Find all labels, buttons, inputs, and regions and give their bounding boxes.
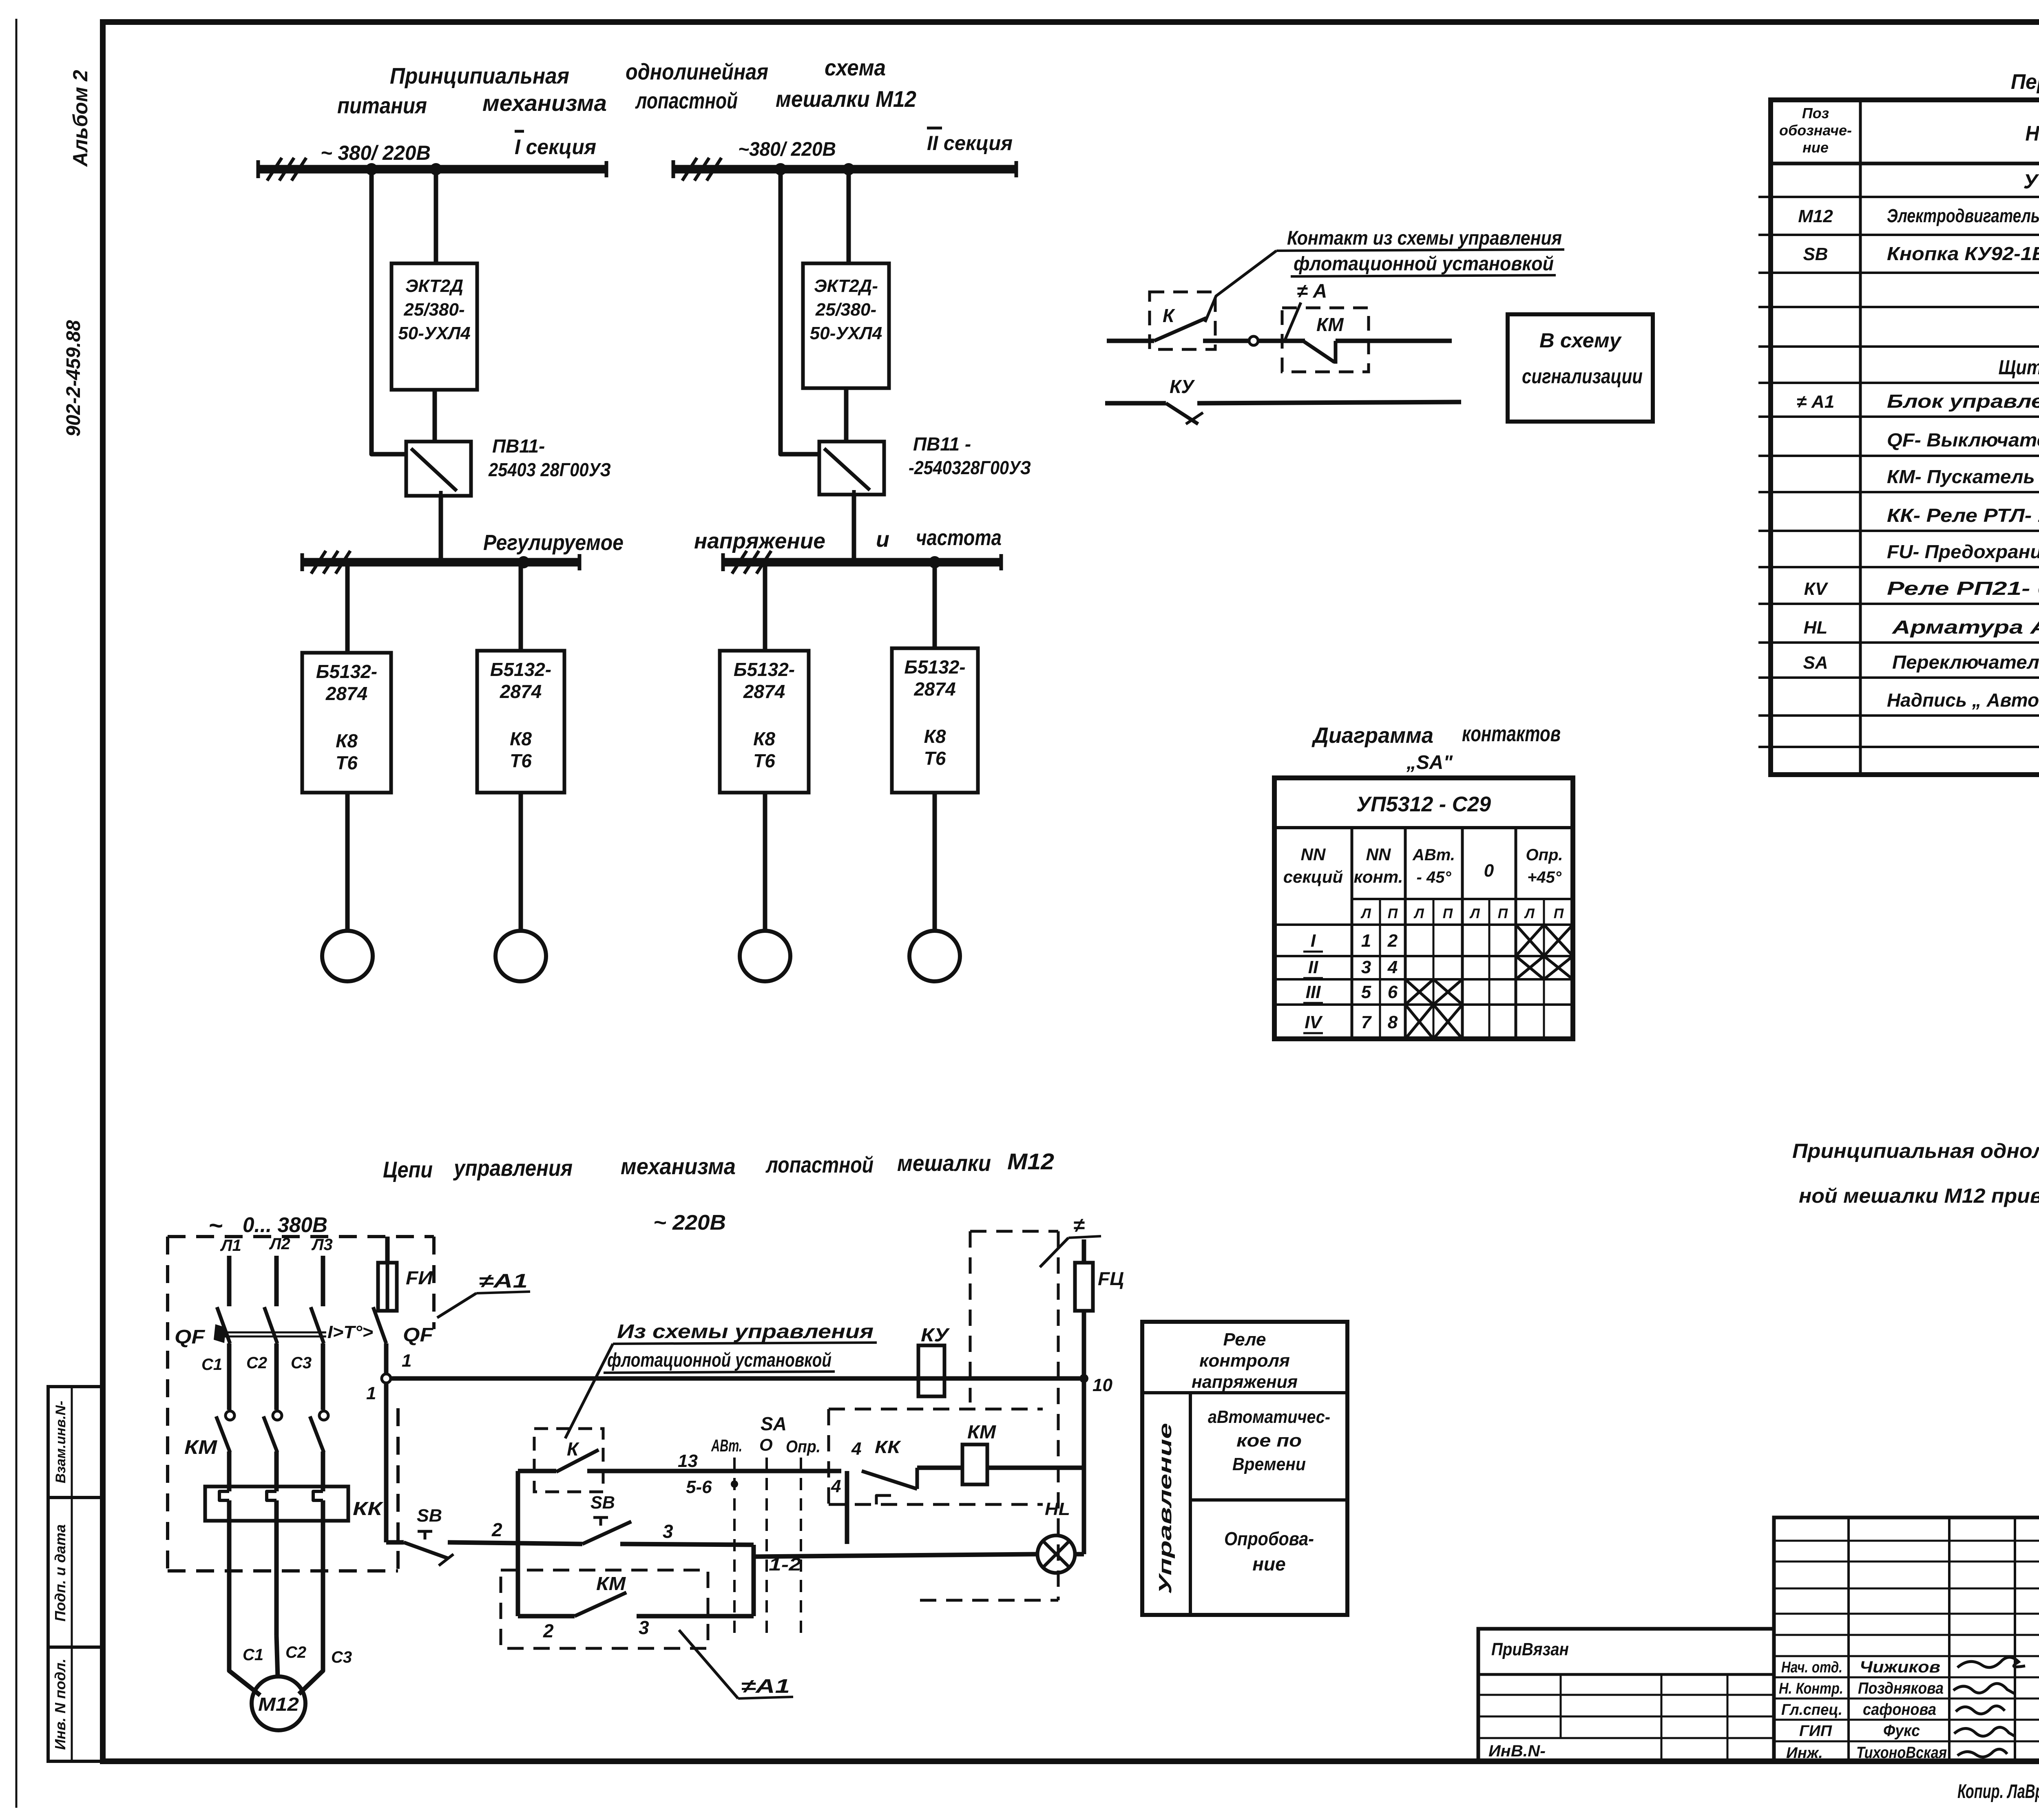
motor circle #1 <box>322 931 373 981</box>
svg-text:≠: ≠ <box>1073 1214 1085 1237</box>
svg-text:Л: Л <box>1413 906 1424 921</box>
row M12 electric motor <box>1798 205 2039 226</box>
wire QF to node 1 <box>384 1343 389 1374</box>
phase wire 1 lower <box>227 1500 232 1636</box>
label NEQ A1 with leader (bottom) <box>679 1630 793 1699</box>
phase wire 2 lower <box>274 1500 279 1636</box>
svg-text:лопастной: лопастной <box>635 88 738 113</box>
title Диаграмма контактов SA <box>1311 722 1561 773</box>
svg-text:Инж.: Инж. <box>1786 1745 1823 1762</box>
label NEQ A1 with leader (top) <box>437 1270 530 1318</box>
wire: PV11 (I) to regulated bus 1 <box>439 496 443 559</box>
phase wire 3 upper <box>321 1256 325 1306</box>
svg-text:Л2: Л2 <box>269 1235 290 1253</box>
svg-text:С2: С2 <box>246 1354 267 1372</box>
SA table header texts <box>1283 793 1564 921</box>
svg-text:2: 2 <box>1387 931 1398 951</box>
svg-text:II секция: II секция <box>927 132 1013 155</box>
svg-text:Т6: Т6 <box>924 748 946 769</box>
phase wire 3 mid <box>321 1343 325 1410</box>
label ~380/220V (section II) <box>738 139 836 160</box>
lamp HL <box>1037 1499 1075 1573</box>
dashed enclosure around power section (A1 left) <box>168 1237 434 1571</box>
label I секция <box>515 131 596 159</box>
signature table names <box>1856 1658 1947 1762</box>
labels 2 and 3 (aux branch) <box>543 1617 649 1641</box>
row HL armature <box>1804 616 2039 638</box>
SA table data rows <box>1303 931 1398 1033</box>
svg-text:FU- Предохранитель ППТ-10УЗ: FU- Предохранитель ППТ-10УЗ Iпл.Вст-6А <box>1887 541 2039 562</box>
svg-text:2874: 2874 <box>743 681 785 702</box>
control unit B5132-2874 K8 T6 #4 <box>892 648 978 793</box>
svg-text:Цепи: Цепи <box>383 1157 433 1182</box>
svg-text:Позднякова: Позднякова <box>1858 1679 1944 1697</box>
svg-text:КМ: КМ <box>184 1437 217 1458</box>
SA contact diagram table grid <box>1274 778 1573 1039</box>
svg-text:Опр.: Опр. <box>786 1437 820 1456</box>
wire: EKT2D 2 to switch PV11 (II) <box>844 388 849 442</box>
svg-text:SА: SА <box>1803 653 1828 673</box>
svg-text:КМ: КМ <box>967 1421 997 1442</box>
label Регулируемое напряжение и частота <box>483 526 1002 555</box>
svg-text:25403 28Г00УЗ: 25403 28Г00УЗ <box>488 459 611 480</box>
label ~380/220V (section I) <box>321 141 431 164</box>
contactor KM pole 2 <box>263 1411 282 1452</box>
sheet outer trim line left <box>15 19 18 1808</box>
svg-text:К8: К8 <box>336 730 358 751</box>
svg-text:механизма: механизма <box>482 90 607 116</box>
wire: control unit #1 to motor #1 <box>345 793 350 931</box>
motor circle #2 <box>495 931 546 981</box>
label II секция <box>927 128 1013 155</box>
label KM (coil) <box>967 1421 997 1442</box>
signature table grid <box>1774 1517 2039 1761</box>
svg-text:0: 0 <box>1484 861 1494 881</box>
phase labels C1 C2 C3 upper <box>201 1354 312 1374</box>
svg-text:КК: КК <box>875 1437 901 1457</box>
svg-text:АВт.: АВт. <box>711 1436 742 1455</box>
svg-text:П: П <box>1554 906 1564 921</box>
svg-text:ГИП: ГИП <box>1799 1723 1832 1740</box>
svg-text:3: 3 <box>663 1521 673 1542</box>
svg-text:механизма: механизма <box>621 1153 736 1179</box>
svg-text:Т6: Т6 <box>336 752 358 773</box>
breaker QF pole 3 <box>311 1307 324 1343</box>
footer: copier name <box>1957 1781 2039 1802</box>
svg-text:4: 4 <box>851 1439 861 1459</box>
svg-text:НL: НL <box>1804 618 1828 638</box>
svg-text:Б5132-: Б5132- <box>316 661 377 682</box>
svg-text:8: 8 <box>1388 1012 1398 1032</box>
dashed box around KK-KM (operator panel) <box>829 1409 1043 1504</box>
row QF breaker <box>1887 429 2039 451</box>
svg-text:флотационной установкой: флотационной установкой <box>607 1350 832 1371</box>
motor circle #3 <box>740 931 790 981</box>
left margin document number 902-2-459.88 <box>63 320 84 437</box>
control unit B5132-2874 K8 T6 #2 <box>477 651 564 793</box>
svg-text:Т6: Т6 <box>510 750 532 771</box>
svg-text:Надпись „ Автом -Опроб ": Надпись „ Автом -Опроб " <box>1887 689 2039 711</box>
svg-text:мешалки: мешалки <box>897 1150 991 1176</box>
label NEQ A <box>1297 281 1327 302</box>
svg-text:П: П <box>1498 906 1508 921</box>
label node 2 <box>491 1519 502 1540</box>
svg-text:I: I <box>1311 931 1316 951</box>
svg-text:1: 1 <box>1361 931 1371 951</box>
svg-text:3: 3 <box>1361 957 1371 977</box>
start button SB2 <box>518 1493 754 1545</box>
svg-text:4: 4 <box>831 1476 841 1496</box>
svg-text:Л: Л <box>1360 906 1371 921</box>
wire after KM <box>1336 339 1452 343</box>
wire: EKT2D 1 to switch PV11 (I) <box>433 390 437 442</box>
contact KM (dashed box, NC) <box>1282 308 1369 372</box>
svg-text:ние: ние <box>1802 139 1829 156</box>
control unit B5132-2874 K8 T6 #3 <box>720 651 809 793</box>
label node 3 <box>663 1521 673 1542</box>
svg-text:-2540328Г00УЗ: -2540328Г00УЗ <box>909 457 1031 478</box>
svg-text:I секция: I секция <box>515 135 596 159</box>
wire: bypass bus I to switch PV11 (I) <box>372 169 406 454</box>
svg-text:Чижиков: Чижиков <box>1860 1658 1940 1676</box>
vertical wire node4 down to return <box>845 1471 849 1544</box>
svg-text:мешалки М12: мешалки М12 <box>776 86 916 112</box>
phase wire 1 upper <box>227 1256 232 1306</box>
left margin album label <box>69 70 92 167</box>
svg-text:Блок управления Б5132- 28: Блок управления Б5132- 2874 <box>1887 391 2039 412</box>
svg-text:Альбом 2: Альбом 2 <box>69 70 92 167</box>
svg-text:напряжение: напряжение <box>694 529 825 553</box>
svg-text:2874: 2874 <box>913 678 955 700</box>
bus bar section II (~380/220V) <box>673 158 1016 181</box>
leader line NEQ A to KM box <box>1285 303 1301 341</box>
svg-text:Принципиальная: Принципиальная <box>390 63 569 88</box>
svg-text:КК- Реле РТЛ- 101004С: КК- Реле РТЛ- 101004С <box>1887 505 2039 526</box>
main control wire node1 to node10 <box>391 1376 1080 1381</box>
annotation box Реле контроля напряжения / Управление <box>1142 1322 1347 1615</box>
control fuse FU (A1) <box>378 1237 397 1311</box>
svg-text:КК: КК <box>353 1498 383 1519</box>
svg-text:Опробова-: Опробова- <box>1224 1528 1314 1549</box>
junction dot regulated bus II <box>929 556 941 568</box>
regulated bus (section II) <box>723 551 1001 574</box>
svg-text:2: 2 <box>491 1519 502 1540</box>
svg-text:Реле: Реле <box>1223 1330 1266 1350</box>
dashed box around KM aux (A1) <box>501 1570 708 1648</box>
svg-text:П: П <box>1443 906 1453 921</box>
phase labels L1 L2 L3 <box>220 1235 333 1255</box>
motor circle #4 <box>909 931 960 981</box>
wire node to contact KM <box>1258 339 1305 343</box>
KK heater element 1 <box>219 1491 229 1500</box>
svg-text:2: 2 <box>543 1620 554 1641</box>
svg-text:УП5312 - С29: УП5312 - С29 <box>1356 793 1491 816</box>
svg-text:Инв. N подл.: Инв. N подл. <box>52 1659 69 1750</box>
svg-text:М12: М12 <box>1007 1149 1054 1174</box>
svg-text:С3: С3 <box>291 1354 312 1372</box>
wire: PV11 (II) to regulated bus 2 <box>852 495 856 559</box>
phase wire 2 upper <box>274 1256 279 1306</box>
box В схему сигнализации <box>1508 314 1653 422</box>
row SB button <box>1803 243 2039 265</box>
dashed box around FU2/HL column <box>920 1231 1058 1600</box>
stop button SB <box>386 1506 518 1566</box>
svg-text:5: 5 <box>1361 982 1371 1002</box>
svg-text:ПВ11 -: ПВ11 - <box>913 433 971 455</box>
svg-text:КМ- Пускатель ПМЛ110004В +ПК: КМ- Пускатель ПМЛ110004В +ПКЛ2204 Iнэ-6А <box>1887 466 2039 487</box>
converter unit EKT2D 25/380-50-UHL4 (I) <box>391 263 477 390</box>
svg-text:напряжения: напряжения <box>1192 1372 1298 1392</box>
svg-text:ПВ11-: ПВ11- <box>492 435 545 457</box>
svg-text:25/380-: 25/380- <box>815 300 876 320</box>
svg-text:Нач. отд.: Нач. отд. <box>1781 1659 1842 1676</box>
svg-text:- 45°: - 45° <box>1417 868 1452 886</box>
svg-text:лопастной: лопастной <box>765 1152 874 1177</box>
breaker QF pole 1 <box>217 1307 230 1343</box>
phase wire 2 to KK <box>274 1451 279 1491</box>
row KM starter <box>1887 466 2039 487</box>
svg-text:1-2: 1-2 <box>769 1555 802 1575</box>
wire KM coil to node10 vertical <box>987 1466 1084 1470</box>
svg-text:С1: С1 <box>201 1356 222 1374</box>
svg-text:частота: частота <box>916 526 1002 550</box>
labels 13 and 5-6 <box>678 1451 712 1497</box>
svg-text:50-УХЛ4: 50-УХЛ4 <box>810 323 882 343</box>
svg-text:М12: М12 <box>1798 206 1833 226</box>
element list table grid <box>1758 100 2039 775</box>
svg-text:КУ: КУ <box>921 1324 950 1345</box>
label KV <box>921 1324 950 1345</box>
annotation Из схемы управления флотационной установкой <box>604 1321 877 1373</box>
svg-text:Л: Л <box>1524 906 1535 921</box>
svg-text:сафонова: сафонова <box>1863 1701 1936 1718</box>
svg-text:Гл.спец.: Гл.спец. <box>1781 1701 1842 1718</box>
title: single-line power scheme (2 lines) <box>337 55 916 118</box>
junction dot bus I left <box>365 163 378 175</box>
svg-text:и: и <box>876 527 889 552</box>
svg-text:1: 1 <box>402 1351 411 1371</box>
svg-text:10: 10 <box>1092 1375 1112 1395</box>
svg-text:II: II <box>1308 957 1318 977</box>
svg-text:Фукс: Фукс <box>1883 1722 1920 1740</box>
svg-text:К8: К8 <box>924 726 946 747</box>
svg-text:III: III <box>1306 982 1321 1002</box>
row FU fuse <box>1887 541 2039 562</box>
svg-text:Б5132-: Б5132- <box>904 656 965 678</box>
contactor coil KM <box>962 1445 987 1484</box>
motor M12 circle <box>252 1676 305 1730</box>
privyazan table <box>1478 1629 1774 1761</box>
phase wire 1 to KK <box>227 1451 232 1491</box>
svg-text:секций: секций <box>1283 867 1343 886</box>
svg-text:Из схемы управления: Из схемы управления <box>617 1321 874 1343</box>
svg-text:25/380-: 25/380- <box>403 300 464 320</box>
svg-text:SВ: SВ <box>417 1506 442 1526</box>
label ~220V <box>653 1211 726 1235</box>
svg-text:кое по: кое по <box>1236 1431 1302 1451</box>
element table header texts <box>1779 105 2039 156</box>
svg-text:FИ: FИ <box>406 1267 433 1288</box>
svg-text:≠ А1: ≠ А1 <box>1797 392 1835 412</box>
label PV11 -2540328G00U3 (II) <box>909 433 1031 478</box>
node 1 circle <box>382 1374 391 1383</box>
annotation: Контакт из схемы управления флотационной установкой <box>1276 227 1564 276</box>
svg-text:7: 7 <box>1361 1012 1372 1032</box>
converter unit EKT2D 25/380-50-UHL4 (II) <box>803 263 889 388</box>
wire: regulated bus to control unit B5132 #4 <box>933 562 937 648</box>
svg-text:1: 1 <box>366 1383 376 1403</box>
svg-text:50-УХЛ4: 50-УХЛ4 <box>398 323 470 343</box>
svg-text:6: 6 <box>1388 982 1398 1002</box>
bus bar section I (~380/220V) <box>258 158 606 181</box>
label KM aux <box>596 1573 626 1594</box>
contact K (control, dashed box) <box>518 1429 603 1492</box>
svg-text:NN: NN <box>1301 845 1326 864</box>
svg-text:схема: схема <box>825 55 886 80</box>
svg-text:Поз: Поз <box>1802 105 1829 121</box>
svg-text:питания: питания <box>337 93 427 118</box>
svg-text:Контакт из схемы управления: Контакт из схемы управления <box>1287 227 1562 249</box>
svg-text:NN: NN <box>1366 845 1391 864</box>
svg-text:Переключатель УП5312- С29: Переключатель УП5312- С29 <box>1892 652 2039 673</box>
signature table role labels <box>1779 1659 1843 1762</box>
svg-text:контроля: контроля <box>1199 1351 1290 1371</box>
svg-text:Принципиальная однолинейн: Принципиальная однолинейная схема питани… <box>1792 1140 2039 1162</box>
svg-text:QF: QF <box>403 1324 434 1346</box>
switch PV11 (II) <box>819 442 884 495</box>
title: Цепи управления механизма лопастной мешалки М12 <box>383 1149 1054 1182</box>
svg-text:Т6: Т6 <box>753 750 775 771</box>
svg-text:0... 380В: 0... 380В <box>243 1213 327 1237</box>
row KV relay <box>1804 578 2039 599</box>
svg-text:КМ: КМ <box>1316 314 1344 335</box>
thermal contact KK (control) <box>862 1468 962 1504</box>
svg-text:ИнВ.N-: ИнВ.N- <box>1488 1742 1546 1760</box>
junction dot bus I right <box>430 163 442 175</box>
svg-text:контактов: контактов <box>1462 722 1561 746</box>
wire: regulated bus to control unit B5132 #2 <box>519 562 523 651</box>
wire: bus II to EKT2D unit 2 <box>847 169 851 263</box>
svg-text:IV: IV <box>1305 1012 1323 1032</box>
regulated bus (section I) <box>302 551 579 574</box>
svg-text:Копир. ЛаВрухина: Копир. ЛаВрухина <box>1957 1781 2039 1802</box>
svg-text:ТихоноВская: ТихоноВская <box>1856 1744 1947 1762</box>
svg-text:13: 13 <box>678 1451 698 1471</box>
breaker QF control pole <box>373 1307 386 1343</box>
wire contact K to node <box>1203 339 1249 343</box>
wire: bus I to EKT2D unit 1 <box>434 169 438 263</box>
wire: bypass bus II to switch PV11 (II) <box>781 169 819 454</box>
svg-text:КV: КV <box>1804 579 1829 599</box>
wire: regulated bus to control unit B5132 #3 <box>763 562 767 651</box>
svg-text:КУ: КУ <box>1170 376 1195 397</box>
breaker QF pole 2 <box>264 1307 277 1343</box>
svg-text:флотационной установкой: флотационной установкой <box>1294 253 1554 275</box>
svg-text:4: 4 <box>1387 957 1398 977</box>
phase wire 3 lower <box>321 1500 325 1636</box>
relay coil KV <box>918 1345 944 1396</box>
thermal relay KK box <box>205 1486 348 1521</box>
svg-text:ние: ние <box>1252 1553 1285 1575</box>
vertical link at left of K contact <box>516 1471 520 1616</box>
leader to K contact from text <box>565 1344 613 1438</box>
svg-text:однолинейная: однолинейная <box>626 59 768 84</box>
svg-text:Л3: Л3 <box>311 1236 333 1254</box>
label ~ 0...380V <box>208 1212 327 1239</box>
svg-text:М12: М12 <box>258 1694 299 1715</box>
wire: control unit #4 to motor #4 <box>933 793 937 931</box>
vertical wire with FU2 <box>1075 1239 1093 1554</box>
phase wire 3 to KK <box>321 1451 325 1491</box>
wire HL to vertical <box>1075 1552 1084 1557</box>
junction dot regulated bus I <box>517 556 530 568</box>
junction dot bus II left <box>774 163 787 175</box>
svg-text:конт.: конт. <box>1354 867 1403 886</box>
svg-text:АВт.: АВт. <box>1412 846 1455 864</box>
svg-text:Опр.: Опр. <box>1526 846 1563 864</box>
svg-text:SВ: SВ <box>590 1493 615 1513</box>
svg-text:Подп. и дата: Подп. и дата <box>52 1524 69 1621</box>
svg-text:НL: НL <box>1045 1499 1070 1519</box>
svg-text:Регулируемое: Регулируемое <box>483 530 624 555</box>
svg-text:Диаграмма: Диаграмма <box>1311 723 1433 748</box>
left margin stamp cells (Взам.инв / Подп.и дата / Инв.N подл.) <box>48 1387 103 1761</box>
svg-text:~380/ 220В: ~380/ 220В <box>738 139 836 160</box>
svg-text:Л1: Л1 <box>220 1237 241 1255</box>
labels 4 KK <box>851 1437 901 1459</box>
svg-text:~ 380/ 220В: ~ 380/ 220В <box>321 141 431 164</box>
svg-text:обозначе-: обозначе- <box>1779 122 1852 139</box>
svg-text:В схему: В схему <box>1539 329 1622 352</box>
row KK relay <box>1887 505 2039 526</box>
svg-text:~ 220В: ~ 220В <box>653 1211 726 1235</box>
svg-text:ной мешалки М12 приведена: ной мешалки М12 приведена для 4 <box>1799 1184 2039 1207</box>
switch PV11-25403 28G00U3 (I) <box>406 442 471 496</box>
contactor KM pole 1 <box>216 1411 234 1452</box>
svg-text:Электродвигатель: Электродвигатель <box>1887 205 2039 226</box>
junction dot on Avt line <box>731 1480 738 1488</box>
svg-text:Наименование: Наименование <box>2026 122 2039 146</box>
section header Щит оператора <box>1999 356 2039 379</box>
svg-text:К8: К8 <box>753 728 775 749</box>
label FU (A1) <box>406 1267 433 1288</box>
control unit B5132-2874 K8 T6 #1 <box>302 653 391 793</box>
contactor KM pole 3 <box>310 1411 328 1452</box>
wire: control unit #2 to motor #2 <box>519 793 523 931</box>
svg-text:I>Т°>: I>Т°> <box>327 1322 373 1342</box>
svg-text:Времени: Времени <box>1232 1454 1306 1474</box>
node circle between K and KM <box>1249 336 1258 345</box>
row A1 control unit <box>1797 391 2039 412</box>
svg-text:5-6: 5-6 <box>686 1477 712 1497</box>
switch SA position dashed lines <box>734 1458 801 1639</box>
svg-text:П: П <box>1388 906 1398 921</box>
svg-text:ЭКТ2Д: ЭКТ2Д <box>405 276 463 296</box>
svg-text:О: О <box>759 1435 773 1454</box>
title Перечень элементов <box>2011 68 2039 94</box>
label I>T> <box>327 1322 373 1342</box>
label NEQ with leader (right) <box>1040 1214 1101 1267</box>
svg-text:Щит оператора: Щит оператора <box>1999 356 2039 379</box>
label node 1 <box>366 1351 411 1403</box>
label 1-2 <box>769 1555 802 1575</box>
svg-text:С2: С2 <box>285 1643 306 1661</box>
row Надпись Автом-Опроб <box>1887 689 2039 711</box>
svg-text:Перечень: Перечень <box>2011 70 2039 94</box>
vertical to KM aux branch <box>752 1557 756 1616</box>
svg-text:управления: управления <box>453 1155 573 1181</box>
svg-text:аВтоматичес-: аВтоматичес- <box>1208 1407 1330 1427</box>
